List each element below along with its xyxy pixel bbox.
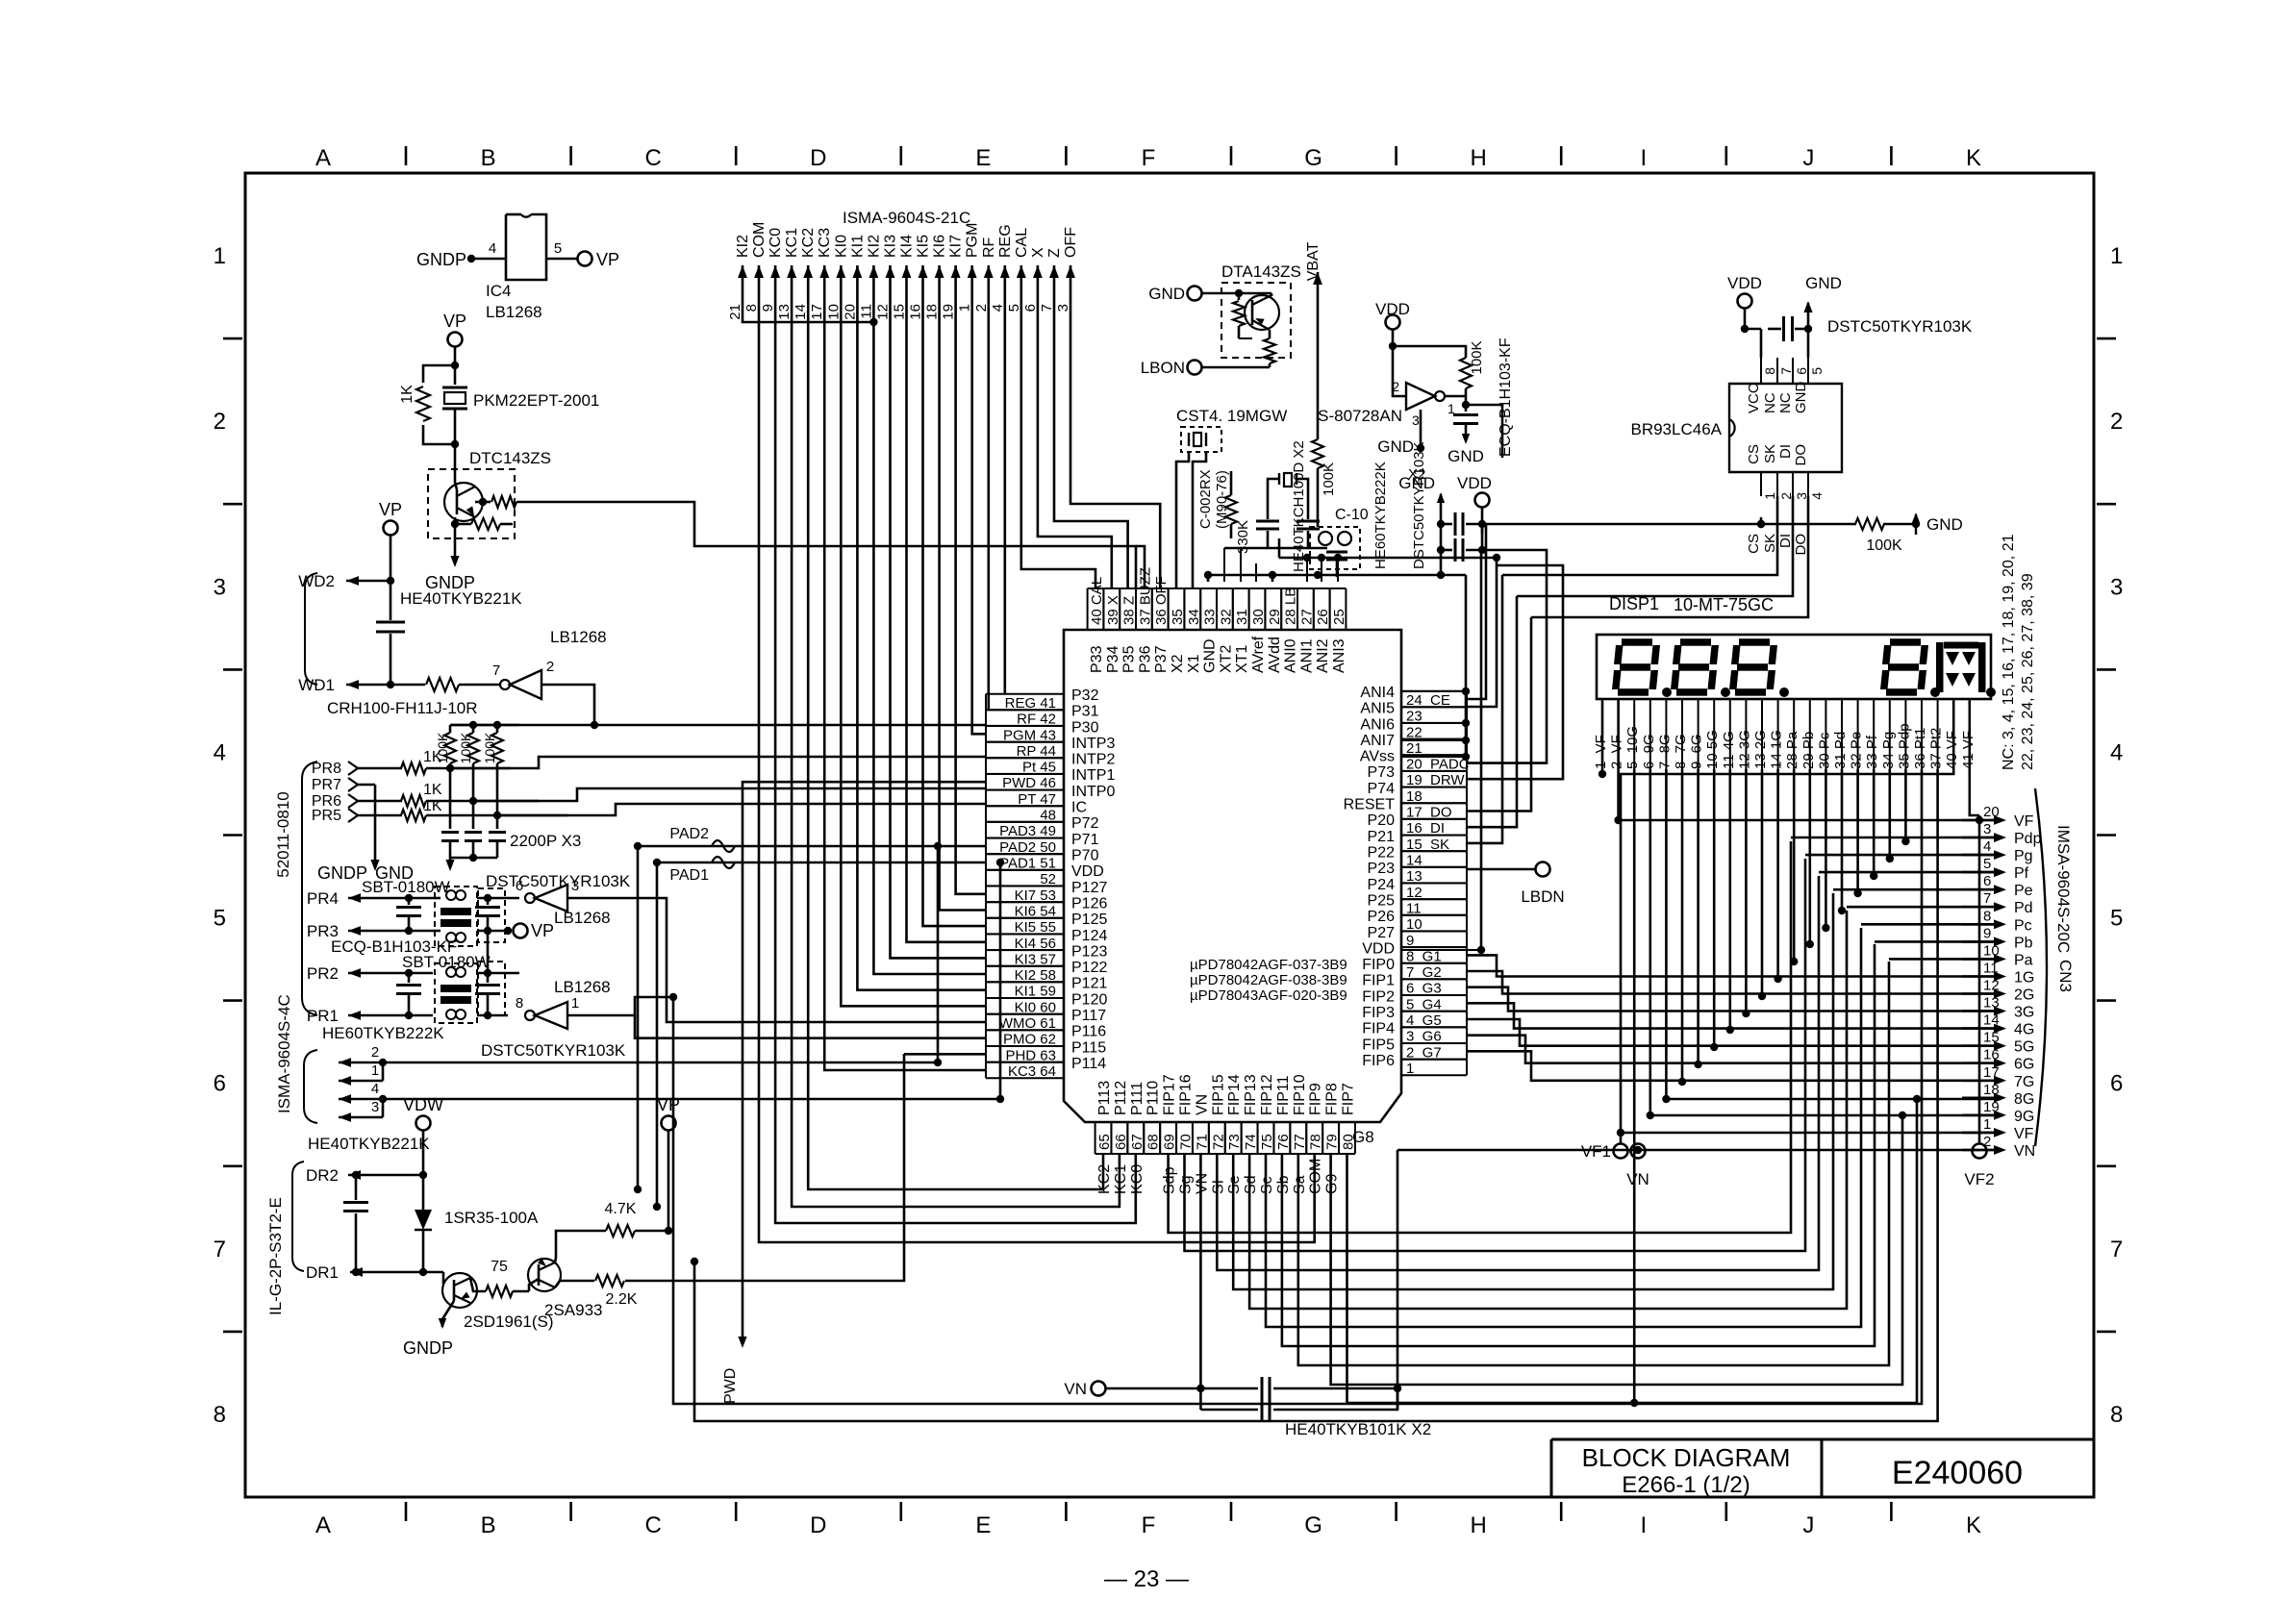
svg-text:KC1: KC1: [1113, 1164, 1129, 1194]
svg-text:CN3: CN3: [2056, 960, 2075, 992]
svg-text:ANI2: ANI2: [1315, 638, 1331, 673]
svg-text:11: 11: [858, 304, 874, 319]
wire bus: IC right port wires to EEPROM, CN3 grids and LBDN: [1401, 520, 1995, 1081]
svg-text:J: J: [1802, 145, 1814, 171]
svg-text:8G: 8G: [2014, 1091, 2034, 1108]
svg-text:6: 6: [214, 1071, 226, 1097]
svg-text:IL-G-2P-S3T2-E: IL-G-2P-S3T2-E: [266, 1197, 285, 1315]
svg-text:13 2G: 13 2G: [1752, 730, 1769, 769]
display pin stubs with labels VF1-VF41: [1593, 699, 1976, 769]
svg-text:D: D: [810, 145, 826, 171]
svg-text:6: 6: [1983, 873, 1991, 889]
svg-text:P25: P25: [1368, 893, 1396, 910]
svg-text:PR7: PR7: [312, 777, 341, 793]
voltage detector S-80728AN with 100K and caps: [1318, 300, 1514, 465]
svg-text:GND: GND: [1377, 437, 1414, 456]
svg-text:6: 6: [2110, 1071, 2123, 1097]
svg-text:VN: VN: [2014, 1143, 2035, 1160]
svg-text:1K: 1K: [399, 385, 415, 404]
svg-text:37 Pt2: 37 Pt2: [1928, 728, 1945, 769]
svg-text:31 Pd: 31 Pd: [1832, 732, 1849, 769]
svg-text:16: 16: [908, 304, 924, 320]
svg-text:5: 5: [554, 240, 562, 257]
IC top pins 40-25 labels: [1088, 567, 1347, 673]
wire: VN net with HE40TKYB101K X2 capacitors to CN3 pin 2: [1064, 1146, 1995, 1438]
svg-text:AVdd: AVdd: [1267, 637, 1283, 673]
svg-text:ANI7: ANI7: [1360, 733, 1395, 749]
svg-text:Pg: Pg: [2014, 848, 2033, 864]
svg-text:RF: RF: [981, 237, 997, 258]
svg-text:FIP6: FIP6: [1362, 1053, 1395, 1069]
svg-text:I: I: [1640, 145, 1647, 171]
svg-text:8: 8: [214, 1402, 226, 1428]
svg-text:Sc: Sc: [1259, 1176, 1275, 1194]
svg-text:X1: X1: [1186, 654, 1202, 673]
svg-text:79: 79: [1324, 1134, 1341, 1150]
svg-text:G: G: [1304, 1512, 1322, 1538]
svg-text:DO: DO: [1793, 534, 1809, 556]
svg-text:3: 3: [571, 878, 579, 894]
svg-text:3: 3: [371, 1099, 379, 1115]
svg-text:GND: GND: [1202, 638, 1219, 673]
svg-text:Sg: Sg: [1178, 1175, 1195, 1194]
svg-text:CRH100-FH11J-10R: CRH100-FH11J-10R: [327, 699, 478, 717]
svg-text:2: 2: [546, 659, 554, 675]
svg-text:K: K: [1966, 145, 1981, 171]
svg-text:P70: P70: [1071, 848, 1099, 864]
svg-text:E266-1 (1/2): E266-1 (1/2): [1622, 1472, 1750, 1498]
svg-text:PR8: PR8: [312, 761, 341, 777]
svg-text:SBT-0180W: SBT-0180W: [402, 953, 491, 971]
svg-text:G9: G9: [1324, 1174, 1341, 1194]
svg-text:VF: VF: [2014, 813, 2034, 830]
svg-text:PWD: PWD: [722, 1368, 739, 1404]
svg-text:SK: SK: [1762, 534, 1778, 553]
svg-text:SK: SK: [1762, 444, 1778, 463]
svg-text:INTP3: INTP3: [1071, 736, 1115, 752]
svg-text:FIP13: FIP13: [1243, 1074, 1259, 1115]
svg-text:FIP17: FIP17: [1162, 1074, 1178, 1115]
svg-text:HE60TKYB222K: HE60TKYB222K: [322, 1024, 444, 1042]
svg-text:P123: P123: [1071, 943, 1107, 960]
svg-text:CS: CS: [1746, 534, 1762, 554]
svg-text:7: 7: [1983, 890, 1991, 907]
svg-text:3G: 3G: [2014, 1005, 2034, 1021]
svg-text:FIP2: FIP2: [1362, 988, 1395, 1005]
svg-text:FIP1: FIP1: [1362, 973, 1395, 989]
svg-text:FIP12: FIP12: [1259, 1074, 1275, 1115]
svg-text:VP: VP: [596, 250, 619, 269]
svg-text:VDD: VDD: [1375, 300, 1410, 318]
svg-text:8: 8: [2110, 1402, 2123, 1428]
svg-text:G: G: [1304, 145, 1322, 171]
svg-text:AVss: AVss: [1360, 749, 1395, 765]
title block BLOCK DIAGRAM E266-1 (1/2) E240060: [1551, 1439, 2094, 1498]
svg-text:VDD: VDD: [1071, 863, 1104, 880]
svg-text:CST4. 19MGW: CST4. 19MGW: [1176, 407, 1287, 425]
svg-text:KC1: KC1: [784, 228, 800, 258]
svg-text:2: 2: [973, 304, 990, 312]
svg-text:8: 8: [1762, 367, 1777, 375]
svg-text:C-10: C-10: [1335, 507, 1369, 523]
bypass capacitors DSTC50TKYR103K X2 at VDD/GND: [1398, 474, 1492, 567]
svg-text:7G: 7G: [2014, 1074, 2034, 1090]
svg-text:15: 15: [892, 304, 908, 320]
svg-text:P21: P21: [1368, 829, 1396, 845]
svg-text:VDW: VDW: [403, 1095, 443, 1114]
svg-text:ANI1: ANI1: [1298, 638, 1315, 673]
svg-text:FIP5: FIP5: [1362, 1037, 1395, 1053]
svg-text:DO: DO: [1793, 444, 1809, 466]
svg-text:VF1: VF1: [1581, 1142, 1611, 1161]
svg-text:HE60TKYB222K: HE60TKYB222K: [1372, 462, 1389, 569]
svg-text:LB1268: LB1268: [554, 978, 611, 996]
svg-text:29 Pb: 29 Pb: [1800, 732, 1817, 769]
svg-text:HE40TKYB101K X2: HE40TKYB101K X2: [1285, 1420, 1431, 1438]
svg-text:22, 23, 24, 25, 26, 27, 38, 39: 22, 23, 24, 25, 26, 27, 38, 39: [2020, 573, 2036, 770]
svg-text:1 VF: 1 VF: [1593, 735, 1609, 769]
svg-text:ISMA-9604S-21C: ISMA-9604S-21C: [843, 209, 970, 227]
svg-text:20: 20: [842, 304, 858, 320]
svg-text:GNDP: GNDP: [403, 1338, 453, 1358]
svg-text:P126: P126: [1071, 896, 1107, 912]
svg-text:ANI4: ANI4: [1360, 685, 1395, 701]
svg-text:35 Pdp: 35 Pdp: [1896, 723, 1912, 769]
svg-text:G8: G8: [1352, 1128, 1374, 1146]
svg-text:8: 8: [1983, 908, 1991, 924]
svg-text:LBDN: LBDN: [1521, 887, 1564, 906]
svg-text:70: 70: [1178, 1134, 1195, 1150]
connector 52011-0810 inputs PR8-PR5 with 1K series and 100K/2200P filter: [274, 721, 986, 1015]
svg-text:1: 1: [957, 304, 973, 312]
svg-text:INTP0: INTP0: [1071, 784, 1115, 800]
svg-text:NC: NC: [1762, 392, 1778, 413]
svg-text:4G: 4G: [2014, 1022, 2034, 1038]
svg-text:HE40TKYB221K: HE40TKYB221K: [400, 589, 522, 608]
svg-text:P124: P124: [1071, 928, 1107, 944]
svg-text:GNDP: GNDP: [416, 250, 466, 269]
svg-text:Pa: Pa: [2014, 952, 2033, 968]
svg-text:H: H: [1471, 1512, 1487, 1538]
svg-text:P120: P120: [1071, 991, 1107, 1008]
svg-text:2: 2: [371, 1044, 379, 1061]
wire: VF filament nets to VF1/VF2 terminals and CN3: [1599, 699, 1995, 1143]
wire bus: key matrix KI/KC/COM/PGM/RF/REG/CAL/X/Z/OFF from ISMA-9604S-21C to IC: [743, 265, 1315, 1242]
svg-text:36 Pt1: 36 Pt1: [1912, 728, 1928, 769]
svg-text:J: J: [1802, 1512, 1814, 1538]
svg-text:CAL: CAL: [1014, 228, 1030, 258]
svg-text:1: 1: [571, 995, 579, 1012]
svg-text:74: 74: [1243, 1134, 1259, 1150]
svg-text:1: 1: [1983, 1116, 1991, 1133]
svg-text:GND: GND: [1926, 515, 1963, 534]
svg-text:PAD1: PAD1: [669, 867, 709, 884]
svg-text:5: 5: [1006, 304, 1022, 312]
buzzer PKM22EPT-2001 with 1K resistor and VP terminal: [399, 312, 599, 471]
border frame: [245, 173, 2094, 1497]
svg-text:P112: P112: [1113, 1081, 1129, 1115]
svg-text:KC2: KC2: [800, 228, 817, 258]
svg-text:71: 71: [1194, 1134, 1210, 1150]
svg-text:DTC143ZS: DTC143ZS: [469, 449, 551, 467]
IC left pins 41-64 labels: [986, 687, 1115, 1080]
svg-text:VP: VP: [443, 312, 466, 331]
svg-text:COM: COM: [751, 222, 768, 258]
svg-text:4: 4: [1983, 838, 1991, 855]
svg-text:2: 2: [1392, 379, 1399, 394]
svg-text:VF2: VF2: [1964, 1170, 1994, 1188]
svg-text:SI: SI: [1210, 1180, 1226, 1194]
svg-text:E: E: [975, 145, 991, 171]
svg-text:VN: VN: [1194, 1173, 1210, 1194]
svg-text:9 6G: 9 6G: [1689, 734, 1705, 769]
svg-text:VN: VN: [1626, 1170, 1649, 1188]
connector CN3 IMSA-9604S-20C 20 pins: [1962, 788, 2075, 1160]
svg-text:I: I: [1640, 1512, 1647, 1538]
svg-text:KI0: KI0: [833, 235, 849, 258]
svg-text:C: C: [645, 1512, 662, 1538]
svg-text:KI4: KI4: [899, 235, 916, 258]
svg-text:P127: P127: [1071, 880, 1107, 896]
svg-text:ECQ-B1H103-KF: ECQ-B1H103-KF: [1498, 337, 1514, 457]
svg-text:PAD2: PAD2: [669, 826, 709, 842]
svg-text:NC: 3, 4, 15, 16, 17, 18, 19,: NC: 3, 4, 15, 16, 17, 18, 19, 20, 21: [2001, 534, 2017, 770]
svg-text:1: 1: [1406, 1061, 1414, 1077]
svg-text:ANI0: ANI0: [1283, 638, 1299, 673]
svg-text:GND: GND: [1398, 474, 1435, 492]
svg-text:72: 72: [1210, 1134, 1226, 1150]
svg-text:Sa: Sa: [1292, 1175, 1308, 1194]
svg-text:7: 7: [1778, 367, 1794, 375]
svg-text:3: 3: [2110, 574, 2123, 600]
svg-text:1SR35-100A: 1SR35-100A: [444, 1209, 539, 1227]
svg-text:B: B: [481, 145, 496, 171]
svg-text:KI2: KI2: [735, 235, 751, 258]
grid row labels 1-8 with ticks: [214, 243, 2124, 1428]
svg-text:5: 5: [1809, 367, 1825, 375]
svg-text:1K: 1K: [423, 782, 442, 798]
svg-text:X: X: [1030, 247, 1046, 258]
svg-text:10: 10: [825, 304, 842, 320]
svg-text:2G: 2G: [2014, 987, 2034, 1004]
svg-text:78: 78: [1308, 1134, 1324, 1150]
svg-text:41 VF: 41 VF: [1960, 731, 1976, 769]
svg-text:KC3: KC3: [817, 228, 833, 258]
svg-text:2: 2: [214, 409, 226, 435]
svg-text:8 7G: 8 7G: [1673, 734, 1689, 769]
svg-text:65: 65: [1096, 1134, 1113, 1150]
IC4 LB1268 regulator top-left: [416, 214, 619, 321]
svg-text:2SA933: 2SA933: [544, 1301, 603, 1319]
svg-text:INTP1: INTP1: [1071, 767, 1115, 784]
wire: PAD1/PAD2 pendulum pads to IC pins 50/51: [634, 826, 1004, 1211]
svg-text:KI5: KI5: [916, 235, 932, 258]
svg-text:5: 5: [214, 906, 226, 932]
svg-text:P110: P110: [1145, 1081, 1162, 1115]
wire bus: display segment/grid pins down to CN3 rows: [669, 769, 1995, 1421]
svg-text:1: 1: [1762, 492, 1777, 500]
svg-text:KI6: KI6: [932, 235, 948, 258]
svg-text:100K: 100K: [1321, 462, 1337, 496]
svg-text:FIP0: FIP0: [1362, 957, 1395, 973]
svg-text:4: 4: [371, 1081, 379, 1097]
transistor DTC143ZS buzzer driver: [425, 449, 1136, 592]
svg-text:BR93LC46A: BR93LC46A: [1630, 420, 1722, 438]
svg-text:LB1268: LB1268: [554, 909, 611, 927]
svg-text:DSTC50TKYR103K: DSTC50TKYR103K: [1827, 317, 1973, 336]
svg-text:VP: VP: [657, 1095, 680, 1114]
svg-text:3: 3: [1412, 412, 1420, 428]
svg-text:LB1268: LB1268: [486, 303, 542, 321]
svg-text:PGM: PGM: [965, 223, 981, 258]
svg-text:6G: 6G: [2014, 1057, 2034, 1073]
svg-text:KI3: KI3: [883, 235, 899, 258]
svg-text:FIP7: FIP7: [1341, 1083, 1357, 1115]
svg-text:IC4: IC4: [486, 282, 511, 300]
transformer SBT-0180W PR2/PR1 with HE60TKYB222K and LB1268 inverter pins 8-1: [307, 931, 673, 1060]
svg-text:P115: P115: [1071, 1039, 1106, 1056]
svg-text:69: 69: [1162, 1134, 1178, 1150]
svg-text:HE40TKCH100D X2: HE40TKCH100D X2: [1291, 440, 1307, 572]
svg-text:KI1: KI1: [849, 235, 866, 258]
svg-text:µPD78042AGF-038-3B9: µPD78042AGF-038-3B9: [1190, 972, 1347, 988]
svg-text:E240060: E240060: [1892, 1455, 2023, 1491]
svg-text:XT1: XT1: [1234, 645, 1250, 673]
svg-text:Se: Se: [1226, 1175, 1243, 1194]
svg-text:DR1: DR1: [306, 1263, 339, 1282]
svg-text:GNDP: GNDP: [317, 863, 367, 883]
svg-text:12: 12: [875, 304, 892, 320]
svg-text:PR4: PR4: [307, 889, 339, 908]
connector ISMA-9604S-4C pins 2 1 4 3: [275, 994, 1004, 1123]
svg-text:P122: P122: [1071, 960, 1107, 976]
svg-text:IMSA-9604S-20C: IMSA-9604S-20C: [2054, 825, 2073, 953]
svg-text:DI: DI: [1777, 444, 1794, 459]
svg-text:C: C: [645, 145, 662, 171]
svg-text:GND: GND: [1793, 382, 1809, 414]
svg-text:P74: P74: [1368, 781, 1396, 797]
svg-text:D: D: [810, 1512, 826, 1538]
svg-text:K: K: [1966, 1512, 1981, 1538]
svg-text:5: 5: [2110, 906, 2123, 932]
IC bottom pins 65-80 labels: [1095, 1074, 1374, 1194]
svg-text:6 9G: 6 9G: [1641, 734, 1657, 769]
svg-text:100K: 100K: [1469, 340, 1485, 374]
svg-text:13: 13: [776, 304, 793, 320]
svg-text:DTA143ZS: DTA143ZS: [1221, 262, 1301, 281]
svg-text:21: 21: [727, 304, 743, 320]
svg-text:100K: 100K: [1866, 537, 1902, 554]
svg-text:VDD: VDD: [1362, 940, 1395, 957]
svg-text:RESET: RESET: [1344, 797, 1396, 813]
svg-text:DR2: DR2: [306, 1166, 339, 1185]
svg-text:µPD78042AGF-037-3B9: µPD78042AGF-037-3B9: [1190, 957, 1347, 973]
page number 23: [1104, 1566, 1189, 1592]
grid column labels A-K with ticks: [315, 145, 1981, 1538]
svg-text:H: H: [1471, 145, 1487, 171]
svg-text:Z: Z: [1046, 248, 1063, 258]
svg-text:VP: VP: [379, 500, 402, 519]
svg-text:14: 14: [793, 304, 809, 320]
svg-text:2SD1961(S): 2SD1961(S): [464, 1312, 554, 1331]
svg-text:XT2: XT2: [1218, 645, 1234, 673]
svg-text:P34: P34: [1105, 645, 1121, 673]
svg-text:7 8G: 7 8G: [1656, 734, 1673, 769]
svg-text:4: 4: [2110, 739, 2123, 765]
C-10 trimmer capacitor and 100K: [1310, 439, 1427, 577]
svg-text:30 Pc: 30 Pc: [1816, 732, 1832, 769]
svg-text:VBAT: VBAT: [1305, 241, 1322, 281]
svg-text:VCC: VCC: [1746, 383, 1762, 413]
svg-text:FIP14: FIP14: [1226, 1074, 1243, 1115]
svg-text:LBON: LBON: [1141, 359, 1185, 377]
svg-text:7: 7: [1039, 304, 1055, 312]
svg-text:1: 1: [214, 243, 226, 269]
svg-text:P37: P37: [1153, 645, 1170, 673]
svg-text:F: F: [1142, 1512, 1156, 1538]
svg-text:Pc: Pc: [2014, 917, 2032, 934]
svg-text:Pb: Pb: [2014, 935, 2033, 951]
svg-text:P33: P33: [1089, 645, 1105, 673]
svg-text:P72: P72: [1071, 815, 1099, 832]
svg-text:9: 9: [760, 304, 776, 312]
svg-text:PR2: PR2: [307, 964, 339, 983]
svg-text:NC: NC: [1777, 392, 1794, 413]
svg-text:4: 4: [990, 304, 1006, 312]
svg-text:P125: P125: [1071, 912, 1107, 928]
VBAT supply line: [1305, 241, 1322, 439]
svg-text:A: A: [315, 1512, 331, 1538]
svg-text:FIP15: FIP15: [1210, 1074, 1226, 1115]
svg-text:1K: 1K: [423, 798, 442, 814]
svg-text:P24: P24: [1368, 877, 1396, 893]
svg-text:IC: IC: [1071, 800, 1087, 816]
svg-text:FIP16: FIP16: [1178, 1074, 1195, 1115]
svg-text:GND: GND: [1148, 285, 1185, 303]
svg-text:P113: P113: [1096, 1081, 1113, 1115]
svg-text:5 10G: 5 10G: [1624, 726, 1641, 769]
svg-text:5G: 5G: [2014, 1039, 2034, 1056]
svg-text:GND: GND: [1805, 274, 1842, 292]
transformer SBT-0180W PR4/PR3 with ECQ-B1H103-KF caps and LB1268 inverter pins 6-3: [307, 872, 667, 1019]
svg-text:12 3G: 12 3G: [1736, 730, 1752, 769]
svg-text:6: 6: [1794, 367, 1809, 375]
drive transistors 2SD1961(S) and 2SA933 with 1SR35-100A diode for DR1/DR2: [266, 1054, 904, 1358]
svg-text:11 4G: 11 4G: [1721, 731, 1737, 769]
svg-text:Pdp: Pdp: [2014, 831, 2042, 847]
svg-text:Sd: Sd: [1243, 1175, 1259, 1194]
wire bus: AVdd/ANI and oscillator nets above IC: [1204, 538, 1497, 582]
svg-text:5: 5: [1983, 856, 1991, 872]
svg-text:CS: CS: [1746, 444, 1762, 464]
svg-text:4: 4: [489, 240, 496, 257]
svg-text:FIP9: FIP9: [1308, 1083, 1324, 1115]
wire bus: FIP segment outputs from IC bottom to display/CN3 staircase: [1169, 841, 1922, 1403]
svg-text:P36: P36: [1137, 645, 1153, 673]
svg-text:4: 4: [214, 739, 226, 765]
svg-text:73: 73: [1226, 1134, 1243, 1150]
svg-text:P114: P114: [1071, 1056, 1106, 1072]
svg-text:9: 9: [1983, 925, 1991, 941]
svg-text:KI7: KI7: [948, 235, 965, 258]
svg-text:µPD78043AGF-020-3B9: µPD78043AGF-020-3B9: [1190, 987, 1347, 1004]
svg-text:P35: P35: [1121, 645, 1138, 673]
svg-text:2200P X3: 2200P X3: [510, 832, 581, 850]
svg-text:3: 3: [214, 574, 226, 600]
svg-text:Pf: Pf: [2014, 865, 2029, 882]
svg-text:P30: P30: [1071, 719, 1099, 736]
svg-text:2: 2: [1778, 492, 1794, 500]
